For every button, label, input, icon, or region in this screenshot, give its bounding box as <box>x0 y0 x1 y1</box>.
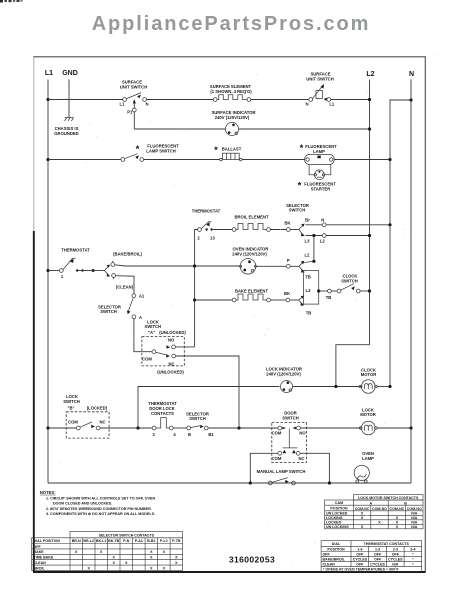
svg-text:UN LOCKED: UN LOCKED <box>326 512 348 516</box>
svg-text:SELECTOR SWITCH CONTACTS: SELECTOR SWITCH CONTACTS <box>99 533 155 537</box>
svg-text:*: * <box>412 553 414 557</box>
svg-text:COM-NO: COM-NO <box>407 507 422 511</box>
wire thermostat row left <box>48 270 59 272</box>
svg-text:CAM: CAM <box>335 501 343 505</box>
svg-text:COM-NO: COM-NO <box>372 507 387 511</box>
svg-text:TB: TB <box>306 311 312 316</box>
svg-text:1. CIRCUIT SHOWN WITH ALL CONT: 1. CIRCUIT SHOWN WITH ALL CONTROLS SET T… <box>46 496 155 500</box>
junction bake-broil x194 <box>193 264 196 267</box>
svg-text:P-A1: P-A1 <box>135 539 143 543</box>
svg-text:4: 4 <box>173 432 176 437</box>
wire broil wiper fan <box>290 229 299 231</box>
svg-text:P-L2: P-L2 <box>160 539 168 543</box>
svg-text:*: * <box>412 558 414 562</box>
wire main row L1 to lock B <box>48 427 76 429</box>
switch door upper <box>278 426 301 448</box>
resistor broil element <box>232 224 270 232</box>
wire selector bar vertical <box>313 236 315 262</box>
svg-text:MOTOR: MOTOR <box>360 412 376 417</box>
svg-text:A1: A1 <box>139 294 145 299</box>
svg-text:OFF: OFF <box>34 545 42 549</box>
wire GND vertical <box>68 80 70 118</box>
junction bottom row nc drop <box>328 481 331 484</box>
svg-text:N: N <box>409 71 414 78</box>
wire P wiper fan <box>290 265 299 267</box>
svg-text:L1: L1 <box>329 101 335 106</box>
svg-text:COM: COM <box>142 356 152 361</box>
wire clock motor to N branch <box>377 386 390 388</box>
switch clock <box>328 284 361 293</box>
contact P <box>286 264 290 268</box>
junction main row L1 <box>46 426 49 429</box>
svg-text:COM: COM <box>68 419 78 424</box>
svg-text:B-B1: B-B1 <box>147 539 155 543</box>
lock switch A dashed box <box>142 337 184 366</box>
resistor bake element <box>232 294 270 302</box>
junction clock row L2 <box>368 289 371 292</box>
svg-text:UNIT SWITCH: UNIT SWITCH <box>120 84 147 89</box>
svg-text:BAKE/BROIL: BAKE/BROIL <box>323 558 346 562</box>
wire selector broil L2 row <box>306 235 323 237</box>
wire lock indicator row <box>138 387 279 429</box>
border frame left upper faded <box>33 57 35 231</box>
wire lock A NC to drop <box>176 356 239 428</box>
svg-text:SWITCH: SWITCH <box>145 324 162 329</box>
wire lock motor to N <box>377 427 411 429</box>
lock switch B dashed box <box>66 412 109 438</box>
svg-text:Br: Br <box>305 217 310 222</box>
wire door NC drop <box>300 453 329 483</box>
svg-text:LAMP: LAMP <box>362 456 374 461</box>
svg-text:TIME BAKE: TIME BAKE <box>34 556 54 560</box>
svg-text:X: X <box>100 550 103 554</box>
svg-text:X: X <box>112 556 115 560</box>
lamp oven indicator <box>240 259 257 275</box>
scan artifact top-left corner <box>0 0 23 3</box>
svg-text:BAKE ELEMENT: BAKE ELEMENT <box>235 288 268 293</box>
svg-text:240V (120V/120V): 240V (120V/120V) <box>232 252 267 257</box>
svg-text:"B": "B" <box>68 406 75 411</box>
svg-text:N/A: N/A <box>411 512 418 516</box>
svg-text:OFF: OFF <box>392 553 400 557</box>
svg-text:CYCLES: CYCLES <box>388 558 403 562</box>
junction lock motor N <box>409 426 412 429</box>
svg-text:CLEAN: CLEAN <box>323 563 336 567</box>
switch fluorescent lamp <box>121 154 144 162</box>
table lock motor switch contacts <box>325 495 423 529</box>
wire lock A NO up to bake feed <box>175 346 194 348</box>
junction bar box clock row <box>317 289 320 292</box>
svg-text:L1: L1 <box>45 70 53 77</box>
svg-text:*: * <box>214 145 218 156</box>
contact BK broil <box>286 228 290 232</box>
svg-text:COM-NC: COM-NC <box>390 507 405 511</box>
svg-text:(BAKE/BROIL): (BAKE/BROIL) <box>113 252 142 257</box>
wire ballast to fluorescent lamp <box>242 159 305 161</box>
switch lock B <box>76 422 100 430</box>
svg-text:THERMOSTAT CONTACTS: THERMOSTAT CONTACTS <box>364 542 410 546</box>
wire main row mid <box>173 427 187 429</box>
svg-text:GND: GND <box>62 70 78 77</box>
svg-text:X: X <box>163 566 166 570</box>
svg-text:X: X <box>75 550 78 554</box>
svg-text:BK-L2: BK-L2 <box>96 539 107 543</box>
svg-text:"A": "A" <box>148 330 155 335</box>
lamp lock indicator <box>281 381 293 393</box>
wire main row to lock motor <box>300 427 361 429</box>
wire clock switch row <box>319 290 328 292</box>
svg-text:SWITCH: SWITCH <box>341 279 358 284</box>
wire bake wiper fan <box>290 299 299 301</box>
svg-text:L3: L3 <box>306 288 312 293</box>
svg-text:SWITCH: SWITCH <box>63 399 80 404</box>
fluorescent lamp tube <box>305 154 335 164</box>
junction row3 N branch <box>388 158 391 161</box>
svg-text:POSITION: POSITION <box>327 547 345 551</box>
wire row3 left <box>48 159 121 161</box>
junction N branch <box>409 98 412 101</box>
svg-text:*: * <box>412 563 414 567</box>
ground chassis symbol <box>65 118 74 122</box>
svg-text:X: X <box>150 550 153 554</box>
svg-text:STARTER: STARTER <box>311 186 330 191</box>
svg-text:A: A <box>369 502 372 506</box>
svg-text:X: X <box>87 566 90 570</box>
wire bake row left <box>195 299 233 301</box>
wire starter legs <box>309 164 331 174</box>
resistor surface element <box>213 95 251 102</box>
svg-text:TB: TB <box>326 295 332 300</box>
wire bake to BK contact <box>270 299 286 301</box>
svg-text:SWITCH: SWITCH <box>289 208 306 213</box>
svg-text:3: 3 <box>152 432 155 437</box>
svg-text:1: 1 <box>61 274 64 279</box>
junction L2 drop lock row <box>334 385 337 388</box>
svg-text:CYCLES: CYCLES <box>353 558 368 562</box>
svg-text:L2: L2 <box>366 71 374 78</box>
svg-text:316002053: 316002053 <box>229 555 275 565</box>
svg-text:LOCKED: LOCKED <box>326 521 342 525</box>
contact selector L2 <box>322 234 326 238</box>
svg-text:LAMP SWITCH: LAMP SWITCH <box>146 149 175 154</box>
svg-text:B: B <box>188 432 191 437</box>
svg-text:(LOCKED): (LOCKED) <box>87 406 108 411</box>
svg-text:X: X <box>396 525 399 529</box>
svg-text:X: X <box>163 550 166 554</box>
svg-text:THERMOSTAT: THERMOSTAT <box>192 209 221 214</box>
wire row1 right <box>251 99 309 101</box>
border frame bottom heavy <box>33 571 425 573</box>
svg-text:240V (120V/120V): 240V (120V/120V) <box>266 371 301 376</box>
svg-text:N: N <box>305 101 308 106</box>
svg-text:BK: BK <box>284 291 290 296</box>
table selector switch contacts <box>32 532 183 571</box>
svg-text:COM: COM <box>272 456 282 461</box>
svg-text:B: B <box>404 502 407 506</box>
switch door lower <box>278 450 300 455</box>
wire broil row <box>213 229 232 231</box>
svg-text:OFF: OFF <box>356 553 364 557</box>
svg-text:THERMOSTAT: THERMOSTAT <box>61 248 90 253</box>
wire A to lock switch A COM <box>134 319 152 352</box>
thermostat left contacts <box>59 258 104 272</box>
wire row2 surface indicator left <box>134 128 225 130</box>
switch selector A1-A <box>127 294 136 319</box>
switch manual lamp <box>268 478 295 485</box>
svg-text:OFF: OFF <box>323 553 331 557</box>
svg-text:NO: NO <box>299 431 306 436</box>
svg-text:DIAL: DIAL <box>332 542 341 546</box>
contact selector N <box>322 223 326 227</box>
svg-text:240V (120V/120V): 240V (120V/120V) <box>215 115 250 120</box>
wire row2 to L2 <box>239 128 370 130</box>
border frame left lower heavy <box>33 231 35 572</box>
junction selector bar mid <box>312 260 315 263</box>
svg-text:POSITION: POSITION <box>330 506 348 510</box>
table thermostat contacts <box>321 541 422 572</box>
switch lock A <box>152 345 176 358</box>
svg-text:BK: BK <box>284 221 290 226</box>
switch surface unit 1 <box>123 93 147 129</box>
svg-text:N/A: N/A <box>411 521 418 525</box>
svg-text:N: N <box>145 101 148 106</box>
motor lock <box>359 421 377 435</box>
junction bake row x194 <box>193 298 196 301</box>
svg-text:DIAL POSITION: DIAL POSITION <box>34 539 61 543</box>
junction main row x138 <box>136 426 139 429</box>
svg-text:UN LOCKING: UN LOCKING <box>326 525 349 529</box>
junction L1 row1 <box>46 98 49 101</box>
svg-text:COM-NC: COM-NC <box>355 507 370 511</box>
svg-text:2: 2 <box>197 236 200 241</box>
border frame <box>34 57 426 572</box>
junction clock motor N branch <box>388 385 391 388</box>
svg-text:P-N: P-N <box>123 539 130 543</box>
thermostat door lock contacts <box>152 418 173 430</box>
junction L1 thermostat row <box>46 269 49 272</box>
svg-text:BAKE: BAKE <box>34 550 45 554</box>
svg-text:OFF: OFF <box>374 553 382 557</box>
svg-text:MOTOR: MOTOR <box>361 372 377 377</box>
svg-text:*: * <box>136 144 140 155</box>
wire broil row corner from vertical <box>195 230 198 348</box>
wire clock switch to L2 <box>360 290 369 292</box>
svg-text:SWITCH: SWITCH <box>189 416 206 421</box>
svg-text:X: X <box>150 556 153 560</box>
svg-text:BR-L2: BR-L2 <box>83 539 94 543</box>
lock motor table rows <box>326 512 418 530</box>
wire main row to door switch <box>208 427 278 429</box>
scan noise speckles <box>41 54 438 582</box>
wire row1 left <box>48 99 123 101</box>
switch selector bottom <box>187 425 208 430</box>
svg-text:X: X <box>125 561 128 565</box>
svg-text:3-4: 3-4 <box>410 547 415 551</box>
contact clean <box>112 274 116 278</box>
svg-text:BK-TB: BK-TB <box>108 539 120 543</box>
svg-text:2. 86'N' DENOTES WIREBOUND CON: 2. 86'N' DENOTES WIREBOUND CONNECTOR PIN… <box>46 507 152 511</box>
svg-text:13: 13 <box>210 236 215 241</box>
junction bottom row com drop <box>249 481 252 484</box>
svg-text:LOCK MOTOR SWITCH CONTACTS: LOCK MOTOR SWITCH CONTACTS <box>358 496 419 500</box>
svg-text:1-3: 1-3 <box>375 547 380 551</box>
lamp surface indicator <box>225 122 238 135</box>
wire N branch vertical <box>390 100 411 387</box>
wire lock indicator to clock motor <box>293 386 362 388</box>
svg-text:P-TB: P-TB <box>172 539 181 543</box>
junction row1 L2 <box>368 98 371 101</box>
wire row1 mid <box>147 99 214 101</box>
svg-text:N: N <box>321 217 324 222</box>
svg-text:* OPENS AT OVEN TEMPERATURES ≈: * OPENS AT OVEN TEMPERATURES ≈ 900°F <box>323 567 399 571</box>
watermark AppliancePartsPros.com <box>0 14 467 34</box>
svg-text:X: X <box>150 566 153 570</box>
wire row1 to L2 <box>331 99 370 101</box>
svg-text:*: * <box>300 143 304 154</box>
svg-text:NC: NC <box>99 419 105 424</box>
svg-text:NC: NC <box>298 456 304 461</box>
svg-text:CYCLES: CYCLES <box>370 563 385 567</box>
svg-text:CONTACTS: CONTACTS <box>151 411 174 416</box>
wire selector N row to N branch <box>326 224 390 226</box>
svg-text:N/A: N/A <box>411 516 418 520</box>
svg-text:P1: P1 <box>127 110 133 115</box>
wire clean drop to A1 <box>116 276 135 294</box>
junction selector N row <box>388 223 391 226</box>
motor clock <box>359 380 377 394</box>
svg-text:BALLAST: BALLAST <box>222 146 242 151</box>
wire selector L2 row to L2 <box>326 235 369 237</box>
wire bottom lamp row <box>48 482 411 484</box>
svg-text:X: X <box>175 561 178 565</box>
svg-text:*: * <box>298 180 302 191</box>
svg-text:B1: B1 <box>208 432 214 437</box>
junction main row NC drop <box>237 426 240 429</box>
svg-text:A: A <box>139 315 142 320</box>
svg-text:2-3: 2-3 <box>393 547 398 551</box>
svg-text:N/A: N/A <box>411 525 418 529</box>
svg-text:GROUNDED: GROUNDED <box>54 131 78 136</box>
door switch dashed box <box>272 423 307 463</box>
svg-text:NC: NC <box>168 362 174 367</box>
wire broil to BK contact <box>270 229 286 231</box>
svg-text:LAMP: LAMP <box>313 149 325 154</box>
svg-text:L1: L1 <box>120 101 126 106</box>
svg-text:(UNLOCKED): (UNLOCKED) <box>159 330 186 335</box>
selector movable bar box <box>303 271 318 305</box>
switch surface unit 2 <box>309 84 331 101</box>
svg-text:L2: L2 <box>320 238 326 243</box>
svg-text:SWITCH: SWITCH <box>282 415 299 420</box>
svg-text:UNIT SWITCH: UNIT SWITCH <box>306 76 333 81</box>
svg-text:BR-N: BR-N <box>72 539 81 543</box>
svg-text:1-6: 1-6 <box>357 547 362 551</box>
wire selector broil N row <box>306 224 323 226</box>
svg-text:(CLEAN): (CLEAN) <box>116 284 134 289</box>
svg-text:MANUAL LAMP SWITCH: MANUAL LAMP SWITCH <box>257 469 306 474</box>
svg-text:X: X <box>175 556 178 560</box>
wire door lower COM drop <box>250 453 278 483</box>
svg-text:LOCKING: LOCKING <box>326 516 343 520</box>
junction selector L2 row <box>368 234 371 237</box>
svg-text:SWITCH: SWITCH <box>100 309 117 314</box>
junction row2 L2 <box>368 127 371 130</box>
svg-text:3. COMPONENTS WITH ⊕ DO NOT AP: 3. COMPONENTS WITH ⊕ DO NOT APPEAR ON AL… <box>46 512 155 516</box>
wire N bus vertical <box>410 80 412 484</box>
lamp oven <box>354 465 369 483</box>
svg-text:L2: L2 <box>305 253 311 258</box>
inductor ballast <box>220 153 242 161</box>
svg-text:(1 SHOWN, 4 REQ'D): (1 SHOWN, 4 REQ'D) <box>210 89 252 94</box>
svg-text:X: X <box>361 525 364 529</box>
wire lock B to x138 <box>100 427 152 429</box>
svg-text:COM: COM <box>272 431 282 436</box>
svg-text:P: P <box>287 258 290 263</box>
svg-text:DOOR CLOSED AND UNLOCKED.: DOOR CLOSED AND UNLOCKED. <box>53 502 112 506</box>
junction selector bar top <box>312 234 315 237</box>
svg-text:BROIL: BROIL <box>34 566 46 570</box>
svg-text:TB: TB <box>305 275 311 280</box>
wire thermostat wiper fan <box>105 267 109 275</box>
svg-text:N/A: N/A <box>392 563 399 567</box>
svg-text:NOTES:: NOTES: <box>40 490 56 495</box>
svg-text:BROIL ELEMENT: BROIL ELEMENT <box>234 215 269 220</box>
thermostat broil contacts <box>198 222 213 232</box>
starter fluorescent <box>314 170 325 180</box>
wire fluorescent lamp to N branch <box>334 159 390 161</box>
wire oven indicator to P <box>256 265 287 267</box>
svg-text:NO: NO <box>168 338 175 343</box>
wire L2 bus vertical <box>336 80 370 387</box>
svg-text:OFF: OFF <box>356 563 364 567</box>
contact bake-broil <box>111 263 115 267</box>
contact BK bake <box>286 298 290 302</box>
svg-text:CLEAN: CLEAN <box>34 561 47 565</box>
svg-text:X: X <box>112 561 115 565</box>
svg-text:(UNLOCKED): (UNLOCKED) <box>157 369 184 374</box>
wire row3 to ballast <box>144 159 220 161</box>
wire L1 bus vertical <box>47 80 49 484</box>
junction L1 row3 <box>46 158 49 161</box>
wire bake-broil row <box>115 265 241 266</box>
svg-text:L3: L3 <box>305 238 311 243</box>
